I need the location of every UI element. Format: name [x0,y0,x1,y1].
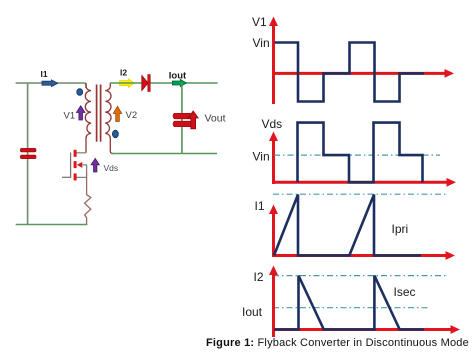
plot Vds trace [298,123,423,183]
diode D1 [142,75,151,92]
mosfet Q1 gate line [70,153,72,178]
wire bottom-left (input - rail) [16,224,88,226]
svg-text:Figure 1: Flyback Converter in: Figure 1: Flyback Converter in Discontin… [206,337,469,349]
transformer secondary winding [105,83,113,154]
plot I2 horizontal axis [274,325,461,334]
svg-text:Ipri: Ipri [392,222,409,236]
mosfet Q1 body wire [82,165,87,172]
plot I2 vertical axis [269,266,278,338]
plot V1 trace [275,43,425,102]
mosfet Q1 body arrow [77,162,83,168]
svg-text:I1: I1 [41,69,48,79]
transformer core [97,85,101,142]
wire secondary top (to output) [110,82,218,84]
polarity dot secondary [113,130,119,137]
resistor R1 (source resistor) [85,172,91,225]
mosfet Q1 drain bar [74,150,77,157]
svg-text:I2: I2 [120,68,127,78]
arrow Iout (current arrow, green) [172,79,186,86]
plot I2 Iout dash-dot level line [273,307,430,309]
arrow Vds (voltage arrow, purple up) [91,158,99,172]
plot I1 trace [274,195,421,256]
svg-text:Iout: Iout [242,305,263,319]
arrow I1 (current arrow) [42,80,58,87]
plot I1 peak dash-dot level line [273,193,447,195]
plot I2 trace [274,276,424,330]
svg-text:I2: I2 [254,270,264,284]
svg-text:Isec: Isec [394,285,416,299]
mosfet Q1 source wire [77,176,87,178]
svg-text:Vds: Vds [262,117,283,131]
mosfet Q1 drain wire [77,152,87,154]
arrow V2 (voltage arrow, orange up) [113,106,121,121]
svg-text:Vin: Vin [253,150,270,164]
wire top-left (input + rail) [16,83,86,88]
plot Vds horizontal axis [274,178,457,187]
wire left vertical branch [27,83,29,225]
svg-text:Vin: Vin [253,36,270,50]
wire output cap branch [181,83,183,154]
transformer primary winding [85,83,91,153]
plot I2 peak dash-dot level line [273,275,447,277]
polarity dot primary [77,89,83,96]
svg-text:V1: V1 [64,111,76,122]
svg-text:V2: V2 [126,110,138,121]
mosfet Q1 body bar [74,161,77,168]
arrow Vout (voltage arrow, red up) [188,111,198,129]
capacitor C1 (input cap) [20,148,36,158]
plot I1 horizontal axis [274,251,456,260]
svg-text:Vds: Vds [104,163,119,173]
plot V1 horizontal axis [274,69,455,78]
svg-text:Vout: Vout [205,113,226,125]
mosfet Q1 source bar [74,173,77,180]
arrow V1 (voltage arrow, purple up) [76,106,85,120]
arrow I2 (current arrow, yellow) [120,79,135,88]
plot I1 vertical axis [269,205,278,258]
plot V1 vertical axis [269,17,278,105]
svg-text:Iout: Iout [169,71,187,82]
wire secondary bottom [111,153,217,155]
svg-text:I1: I1 [255,199,265,213]
plot Vds vertical axis [269,132,278,185]
svg-text:V1: V1 [252,15,267,29]
capacitor C2 (output cap) [173,113,192,126]
mosfet Q1 gate lead [62,176,71,178]
plot Vds Vin dash-dot level line [274,154,440,156]
